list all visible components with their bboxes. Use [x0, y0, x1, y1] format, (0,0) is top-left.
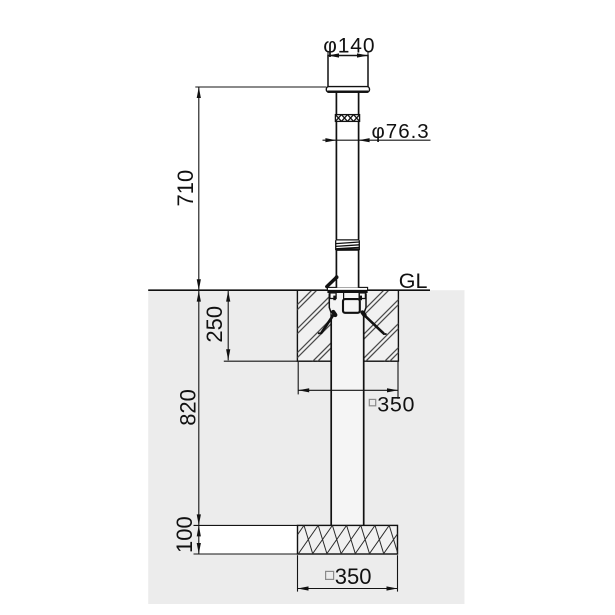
dimension 820 [175, 291, 201, 526]
GL ground line [148, 289, 430, 291]
buried casing pipe [331, 313, 364, 526]
dimension phi140 [323, 35, 375, 59]
dimension 710 [173, 87, 327, 290]
ground (below GL) grey fill [148, 290, 464, 604]
dimension square350 lower [298, 555, 398, 591]
left anchor rod [318, 312, 335, 333]
svg-text:350: 350 [335, 564, 372, 589]
svg-text:710: 710 [173, 170, 198, 207]
dimension 100 [172, 516, 298, 554]
left prong tab [330, 293, 336, 300]
GL flange plate [327, 287, 367, 293]
socket recess [343, 293, 360, 313]
svg-text:350: 350 [377, 393, 415, 417]
svg-text:φ140: φ140 [323, 35, 375, 58]
footing-level white strip [199, 526, 297, 554]
svg-text:φ76.3: φ76.3 [372, 120, 430, 143]
lock lever [327, 275, 339, 286]
reflective band [329, 115, 365, 122]
footing base with lattice hatch [284, 525, 426, 554]
post shaft [336, 92, 358, 287]
sleeve outer wall left [329, 293, 331, 313]
svg-text:GL: GL [399, 269, 428, 293]
concrete foundation block [216, 289, 486, 362]
svg-text:100: 100 [172, 516, 197, 553]
svg-text:820: 820 [175, 389, 200, 426]
right anchor rod [363, 312, 387, 334]
svg-text:250: 250 [202, 306, 227, 343]
cap flange rim [326, 87, 369, 93]
right prong tab [359, 293, 365, 300]
cap head [328, 56, 368, 88]
bellows coupling [336, 240, 360, 250]
sleeve body backing [329, 293, 367, 314]
sleeve outer wall right [364, 293, 366, 313]
dimension 250 [202, 291, 297, 362]
dimension square350 upper [298, 362, 415, 417]
dimension phi76.3 [323, 120, 431, 143]
